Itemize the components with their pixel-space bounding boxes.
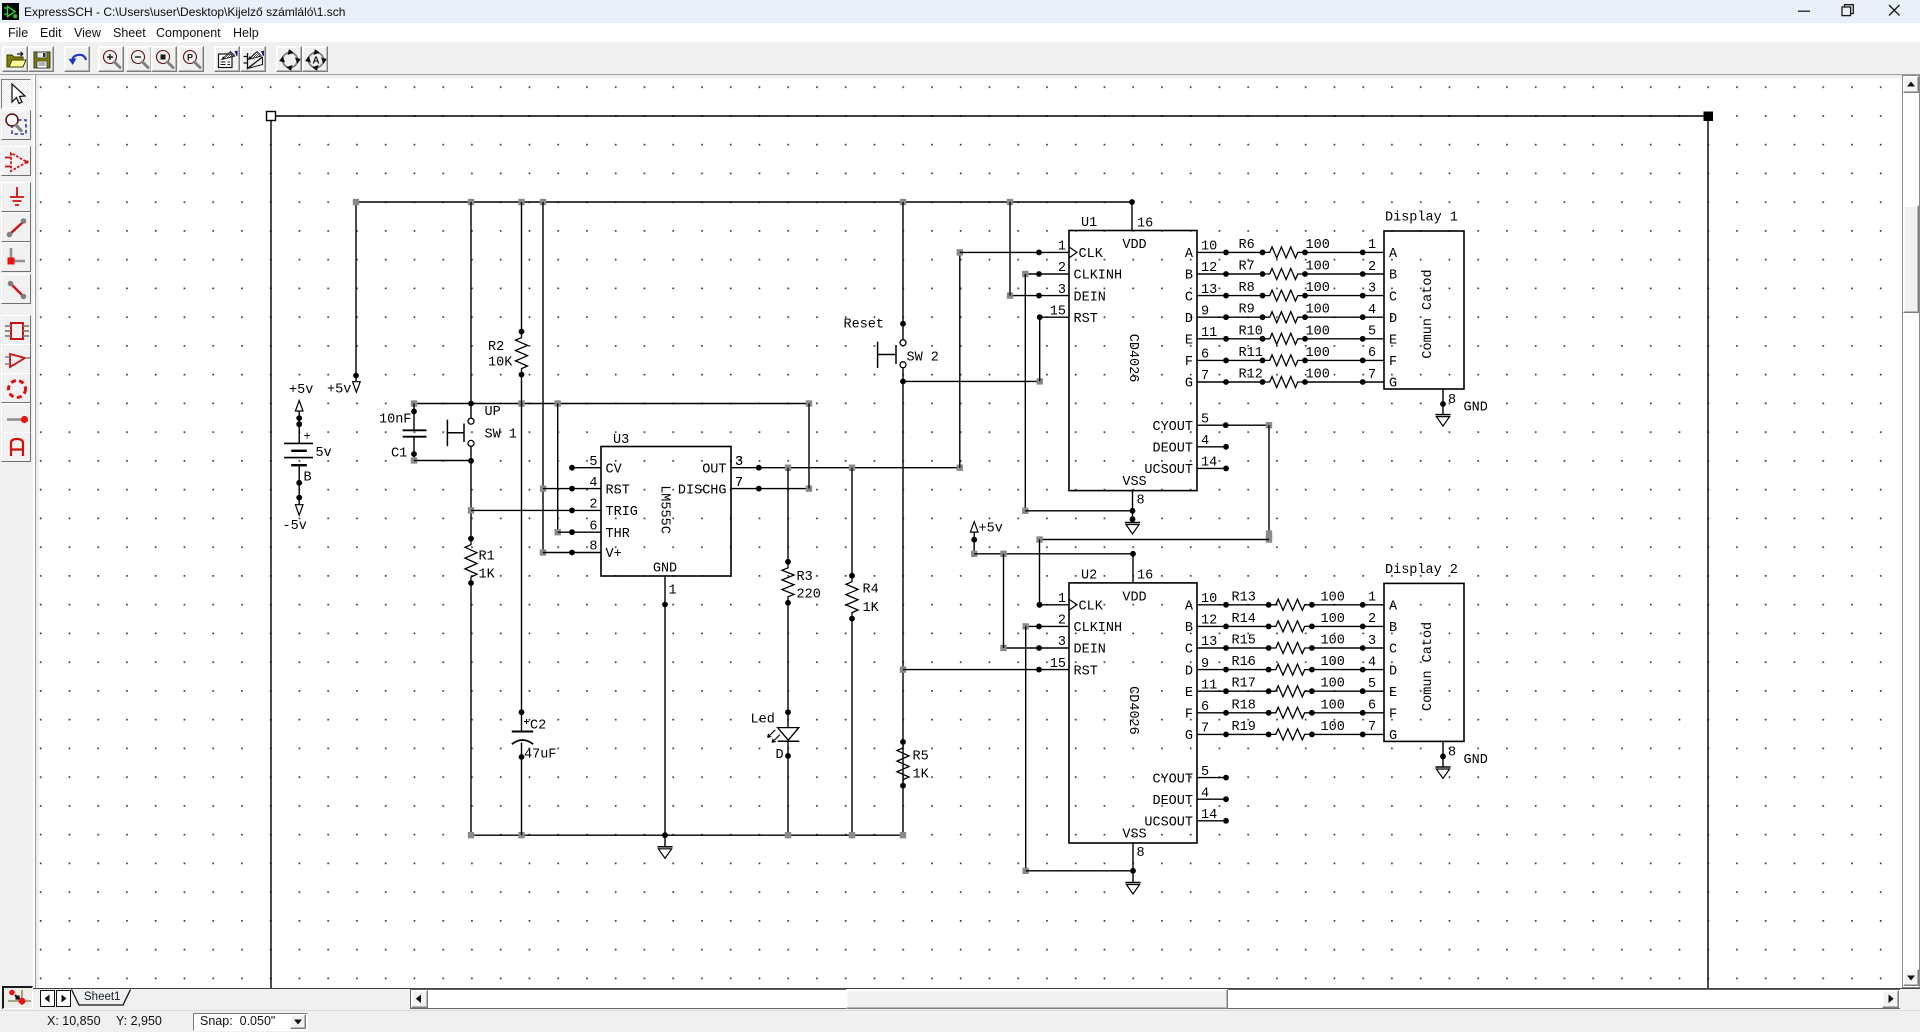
svg-text:DEOUT: DEOUT — [1152, 442, 1193, 457]
svg-text:VDD: VDD — [1122, 590, 1146, 605]
resistor R18 100 — [1197, 698, 1384, 718]
svg-text:2: 2 — [1368, 260, 1376, 275]
LED D — [751, 713, 800, 764]
svg-text:7: 7 — [1368, 368, 1376, 383]
svg-text:SW 2: SW 2 — [907, 351, 939, 366]
wire +5v to U2 VDD pin 16 — [971, 532, 1136, 583]
svg-text:E: E — [1185, 334, 1193, 349]
wire battery top lead — [296, 411, 302, 444]
power symbol +5v (battery) — [289, 383, 313, 411]
IC U1 CD4026 — [1050, 216, 1217, 509]
svg-text:Led: Led — [751, 713, 775, 728]
wire R3 to LED — [785, 603, 791, 728]
svg-text:CD4026: CD4026 — [1125, 334, 1140, 383]
ground symbol (U1 VSS) — [1125, 523, 1140, 535]
svg-text:6: 6 — [589, 519, 597, 534]
svg-text:SW 1: SW 1 — [485, 428, 517, 443]
wire SW1 bottom / TRIG node — [468, 447, 474, 542]
wire U3 THR pin 6 — [558, 529, 601, 535]
wire U3 V+ pin 8 — [543, 550, 601, 556]
resistor R9 100 — [1197, 303, 1384, 323]
wire Display 1 pin 8 to ground — [1440, 389, 1456, 415]
ground symbol (Display 1) — [1435, 401, 1487, 427]
resistor R16 100 — [1197, 655, 1384, 675]
svg-text:A: A — [1185, 247, 1194, 262]
svg-text:4: 4 — [1368, 655, 1376, 670]
svg-text:D: D — [1389, 312, 1397, 327]
svg-text:G: G — [1389, 377, 1397, 392]
svg-text:8: 8 — [1137, 494, 1145, 509]
svg-text:E: E — [1389, 334, 1397, 349]
svg-text:V+: V+ — [606, 547, 622, 562]
resistor R5 1K — [897, 742, 930, 789]
svg-text:TRIG: TRIG — [606, 505, 638, 520]
svg-text:R10: R10 — [1239, 324, 1263, 339]
svg-text:CLKINH: CLKINH — [1074, 269, 1123, 284]
wire U2 RST pin 15 — [903, 667, 1069, 673]
resistor R10 100 — [1197, 324, 1384, 344]
svg-text:RST: RST — [1074, 664, 1098, 679]
wire Display 2 pin 8 to ground — [1440, 741, 1456, 767]
svg-text:R16: R16 — [1232, 655, 1256, 670]
svg-text:D: D — [1389, 664, 1397, 679]
power symbol +5v (top rail) — [327, 382, 360, 398]
svg-text:G: G — [1185, 729, 1193, 744]
svg-text:5: 5 — [1368, 677, 1376, 692]
svg-text:D: D — [1185, 312, 1193, 327]
svg-text:5: 5 — [589, 455, 597, 470]
IC U2 CD4026 — [1050, 568, 1217, 861]
wire U1 DEOUT pin 4 — [1197, 444, 1229, 450]
svg-text:CLKINH: CLKINH — [1074, 621, 1123, 636]
svg-text:220: 220 — [797, 588, 821, 603]
svg-text:R3: R3 — [797, 570, 813, 585]
svg-text:R12: R12 — [1239, 368, 1263, 383]
svg-text:10K: 10K — [488, 356, 513, 371]
svg-text:B: B — [304, 471, 312, 486]
svg-text:A: A — [1389, 247, 1398, 262]
svg-text:OUT: OUT — [702, 462, 726, 477]
wire U1 DEIN pin 3 — [1007, 202, 1069, 299]
svg-text:R1: R1 — [479, 550, 495, 565]
wire U3 DISCHG pin 7 — [731, 404, 812, 492]
svg-text:1: 1 — [1368, 238, 1376, 253]
svg-text:R8: R8 — [1239, 281, 1255, 296]
wire U2 CLKINH pin 2 to VSS — [1023, 623, 1070, 874]
resistor R2 10K — [488, 202, 528, 404]
svg-text:16: 16 — [1137, 569, 1153, 584]
svg-text:100: 100 — [1306, 346, 1330, 361]
svg-text:VSS: VSS — [1122, 828, 1146, 843]
svg-text:B: B — [1389, 269, 1397, 284]
svg-text:CYOUT: CYOUT — [1152, 772, 1193, 787]
wire THR/DISCHG node (y=403.5) — [411, 400, 812, 406]
svg-text:GND: GND — [1464, 753, 1488, 768]
svg-text:+5v: +5v — [979, 522, 1003, 537]
svg-text:100: 100 — [1306, 260, 1330, 275]
wire Reset to U1 RST — [903, 317, 1043, 384]
svg-text:E: E — [1389, 686, 1397, 701]
svg-text:C2: C2 — [530, 719, 546, 734]
resistor R7 100 — [1197, 260, 1384, 280]
svg-text:100: 100 — [1321, 720, 1345, 735]
svg-text:1: 1 — [1368, 591, 1376, 606]
power symbol -5v — [283, 505, 307, 534]
svg-text:R17: R17 — [1232, 677, 1256, 692]
svg-text:8: 8 — [589, 540, 597, 555]
wire ground rail — [468, 832, 906, 838]
svg-text:100: 100 — [1321, 612, 1345, 627]
wire U1 VDD pin 16 — [1131, 202, 1133, 231]
svg-text:DEOUT: DEOUT — [1152, 794, 1193, 809]
svg-text:3: 3 — [1368, 634, 1376, 649]
wire U1 CLKINH pin 2 to VSS — [1022, 271, 1069, 514]
svg-text:UCSOUT: UCSOUT — [1144, 816, 1193, 831]
wire U1 RST pin 15 — [1037, 314, 1069, 320]
svg-text:R5: R5 — [913, 750, 929, 765]
svg-text:+5v: +5v — [289, 383, 313, 398]
svg-text:B: B — [1185, 269, 1193, 284]
svg-text:47uF: 47uF — [524, 748, 556, 763]
wire U2 UCSOUT pin 14 — [1197, 818, 1229, 824]
svg-text:CYOUT: CYOUT — [1152, 420, 1193, 435]
resistor R8 100 — [1197, 281, 1384, 301]
svg-text:-5v: -5v — [283, 519, 307, 534]
ground symbol (Display 2) — [1435, 753, 1487, 779]
display Display 1 (Comun Catod) — [1384, 211, 1464, 392]
wire THR riser — [555, 404, 561, 536]
svg-text:100: 100 — [1306, 324, 1330, 339]
svg-text:Display 1: Display 1 — [1385, 211, 1458, 226]
svg-text:U3: U3 — [613, 433, 629, 448]
resistor R14 100 — [1197, 612, 1384, 632]
svg-text:UP: UP — [485, 405, 501, 420]
wire U2 CLK pin 1 — [1037, 602, 1069, 608]
wire SW2 bottom node — [900, 368, 906, 835]
wire +5V riser to U3 V+ — [540, 202, 546, 556]
svg-text:F: F — [1389, 355, 1397, 370]
svg-text:5v: 5v — [316, 446, 332, 461]
svg-text:Comun Catod: Comun Catod — [1421, 622, 1436, 711]
capacitor C1 10nF — [379, 404, 427, 464]
svg-text:Comun Catod: Comun Catod — [1421, 269, 1436, 358]
svg-text:8: 8 — [1137, 846, 1145, 861]
svg-text:100: 100 — [1321, 590, 1345, 605]
wire timing node to C2 — [519, 404, 525, 732]
wire +5V to SW2 top — [900, 202, 906, 339]
svg-text:2: 2 — [1368, 612, 1376, 627]
svg-text:UCSOUT: UCSOUT — [1144, 463, 1193, 478]
svg-text:THR: THR — [606, 527, 630, 542]
svg-text:6: 6 — [1368, 346, 1376, 361]
svg-text:10nF: 10nF — [379, 413, 411, 428]
svg-text:F: F — [1185, 708, 1193, 723]
svg-text:3: 3 — [1368, 281, 1376, 296]
svg-text:R15: R15 — [1232, 634, 1256, 649]
svg-text:B: B — [1185, 621, 1193, 636]
wire battery bottom lead — [296, 465, 302, 504]
svg-text:F: F — [1389, 708, 1397, 723]
svg-text:Reset: Reset — [844, 318, 885, 333]
svg-text:CLK: CLK — [1079, 600, 1104, 615]
svg-text:1K: 1K — [479, 568, 496, 583]
wire C1 bottom to SW1 bottom — [414, 460, 471, 462]
svg-text:7: 7 — [735, 476, 743, 491]
svg-text:3: 3 — [735, 455, 743, 470]
svg-text:100: 100 — [1321, 634, 1345, 649]
wire U2 CYOUT pin 5 — [1197, 775, 1229, 781]
svg-text:4: 4 — [589, 476, 597, 491]
svg-text:8: 8 — [1448, 393, 1456, 408]
wire +5V to SW1 top — [470, 202, 472, 418]
svg-text:DISCHG: DISCHG — [678, 483, 727, 498]
svg-text:100: 100 — [1306, 281, 1330, 296]
svg-text:R9: R9 — [1239, 303, 1255, 318]
svg-text:U2: U2 — [1081, 568, 1097, 583]
svg-text:CD4026: CD4026 — [1125, 686, 1140, 735]
svg-text:DEIN: DEIN — [1074, 643, 1106, 658]
svg-text:C: C — [1185, 290, 1193, 305]
svg-text:A: A — [1389, 600, 1398, 615]
svg-text:CV: CV — [606, 462, 623, 477]
resistor R1 1K — [465, 539, 496, 586]
wire LED to ground rail — [785, 741, 791, 835]
resistor R11 100 — [1197, 346, 1384, 366]
svg-text:G: G — [1185, 377, 1193, 392]
svg-text:7: 7 — [1368, 720, 1376, 735]
svg-text:R19: R19 — [1232, 720, 1256, 735]
svg-text:C: C — [1389, 290, 1397, 305]
wire U2 DEIN pin 3 — [1000, 554, 1069, 651]
resistor R12 100 — [1197, 368, 1384, 388]
wire U2 DEOUT pin 4 — [1197, 796, 1229, 802]
resistor R6 100 — [1197, 238, 1384, 258]
wire U1 CLK pin 1 — [960, 250, 1069, 256]
wire U2 VSS pin 8 — [1026, 843, 1136, 883]
display Display 2 (Comun Catod) — [1384, 563, 1464, 744]
svg-text:1: 1 — [669, 584, 677, 599]
wire U1 VSS pin 8 — [1025, 491, 1135, 523]
resistor R4 1K — [846, 468, 880, 836]
svg-text:C1: C1 — [391, 447, 407, 462]
svg-text:16: 16 — [1137, 216, 1153, 231]
svg-text:LM555C: LM555C — [657, 485, 672, 534]
ground symbol (U2 VSS) — [1125, 883, 1140, 895]
svg-text:R11: R11 — [1239, 346, 1263, 361]
svg-text:6: 6 — [1368, 699, 1376, 714]
svg-text:VSS: VSS — [1122, 475, 1146, 490]
capacitor C2 47uF — [512, 719, 557, 836]
svg-text:5: 5 — [1368, 325, 1376, 340]
svg-text:Display 2: Display 2 — [1385, 563, 1458, 578]
svg-text:P: P — [187, 52, 193, 62]
svg-text:R4: R4 — [863, 583, 879, 598]
svg-text:F: F — [1185, 355, 1193, 370]
resistor R19 100 — [1197, 720, 1384, 740]
svg-text:B: B — [1389, 621, 1397, 636]
wire U3 OUT pin 3 net — [731, 455, 963, 471]
svg-text:R14: R14 — [1232, 612, 1256, 627]
svg-text:4: 4 — [1368, 303, 1376, 318]
svg-text:RST: RST — [1074, 312, 1098, 327]
svg-text:D: D — [776, 748, 784, 763]
svg-text:GND: GND — [1464, 401, 1488, 416]
wire OUT riser to U1 CLK — [957, 249, 963, 468]
svg-text:100: 100 — [1321, 677, 1345, 692]
svg-text:G: G — [1389, 729, 1397, 744]
svg-text:1K: 1K — [913, 768, 930, 783]
wire U3 GND pin 1 down — [662, 576, 677, 847]
resistor R17 100 — [1197, 677, 1384, 697]
svg-text:1K: 1K — [863, 601, 880, 616]
svg-text:RST: RST — [606, 483, 630, 498]
wire U1 UCSOUT pin 14 — [1197, 466, 1229, 472]
wire U3 RST pin 4 — [543, 486, 601, 492]
wire R1 bottom to ground rail — [470, 583, 472, 835]
svg-text:+: + — [304, 430, 311, 444]
svg-text:100: 100 — [1306, 238, 1330, 253]
wire +5V top rail — [353, 199, 1135, 381]
svg-text:C: C — [1185, 643, 1193, 658]
svg-text:VDD: VDD — [1122, 238, 1146, 253]
svg-text:2: 2 — [589, 498, 597, 513]
svg-text:A: A — [312, 55, 319, 66]
svg-text:R6: R6 — [1239, 238, 1255, 253]
power symbol +5v (U2) — [970, 522, 1002, 537]
svg-text:DEIN: DEIN — [1074, 290, 1106, 305]
border frame — [267, 112, 1714, 989]
svg-text:E: E — [1185, 686, 1193, 701]
svg-text:100: 100 — [1306, 303, 1330, 318]
svg-text:R7: R7 — [1239, 260, 1255, 275]
wire U1 CYOUT to U2 CLK — [1036, 422, 1272, 608]
svg-text:D: D — [1185, 664, 1193, 679]
svg-text:+5v: +5v — [327, 383, 351, 398]
svg-text:100: 100 — [1321, 698, 1345, 713]
battery B 5v — [284, 430, 332, 486]
svg-text:C: C — [1389, 643, 1397, 658]
op-amp/timer U3 LM555C — [589, 433, 743, 577]
wire U3 CV pin 5 — [569, 465, 601, 471]
switch SW1 UP — [447, 405, 517, 446]
resistor R15 100 — [1197, 634, 1384, 654]
svg-text:R18: R18 — [1232, 698, 1256, 713]
switch SW2 Reset — [844, 318, 939, 369]
ground symbol (U3) — [657, 847, 672, 859]
svg-text:GND: GND — [653, 562, 677, 577]
svg-text:100: 100 — [1321, 655, 1345, 670]
svg-text:A: A — [1185, 600, 1194, 615]
resistor R3 220 — [782, 468, 821, 606]
wire U3 TRIG pin 2 — [471, 508, 601, 514]
svg-text:8: 8 — [1448, 745, 1456, 760]
resistor R13 100 — [1197, 590, 1384, 610]
svg-text:U1: U1 — [1081, 216, 1097, 231]
svg-text:R13: R13 — [1232, 590, 1256, 605]
svg-text:R2: R2 — [488, 340, 504, 355]
svg-text:CLK: CLK — [1079, 247, 1104, 262]
svg-text:100: 100 — [1306, 368, 1330, 383]
